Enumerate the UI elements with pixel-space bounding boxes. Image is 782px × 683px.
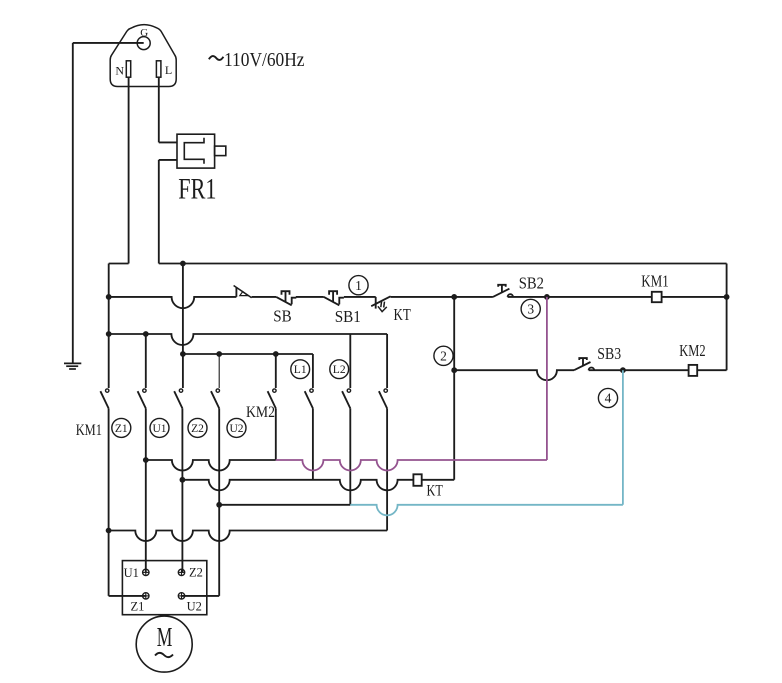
svg-text:KM2: KM2 bbox=[246, 404, 275, 421]
svg-text:L2: L2 bbox=[333, 364, 346, 376]
svg-text:U1: U1 bbox=[152, 423, 166, 435]
svg-text:Z2: Z2 bbox=[191, 423, 204, 435]
svg-text:SB1: SB1 bbox=[335, 307, 361, 326]
svg-text:1: 1 bbox=[355, 278, 362, 293]
svg-text:U2: U2 bbox=[187, 600, 202, 614]
svg-text:KM2: KM2 bbox=[679, 341, 705, 360]
svg-text:U2: U2 bbox=[229, 423, 243, 435]
svg-text:KT: KT bbox=[394, 305, 412, 324]
svg-text:U1: U1 bbox=[124, 566, 139, 580]
svg-text:3: 3 bbox=[527, 302, 534, 317]
svg-text:SB3: SB3 bbox=[597, 344, 621, 363]
svg-text:KT: KT bbox=[427, 483, 443, 500]
svg-text:L: L bbox=[165, 63, 172, 77]
svg-text:4: 4 bbox=[605, 391, 612, 406]
svg-text:G: G bbox=[140, 27, 148, 39]
svg-text:M: M bbox=[157, 622, 173, 652]
svg-text:Z1: Z1 bbox=[115, 423, 128, 435]
svg-text:2: 2 bbox=[440, 348, 447, 363]
svg-text:SB2: SB2 bbox=[519, 273, 544, 292]
svg-text:Z2: Z2 bbox=[189, 566, 203, 580]
svg-text:L1: L1 bbox=[294, 364, 307, 376]
svg-text:FR1: FR1 bbox=[178, 173, 216, 206]
svg-text:Z1: Z1 bbox=[131, 600, 145, 614]
svg-text:SB: SB bbox=[273, 307, 291, 326]
svg-text:N: N bbox=[115, 63, 124, 77]
svg-text:KM1: KM1 bbox=[641, 272, 669, 291]
svg-text:KM1: KM1 bbox=[76, 422, 102, 439]
svg-text:110V/60Hz: 110V/60Hz bbox=[224, 50, 305, 71]
